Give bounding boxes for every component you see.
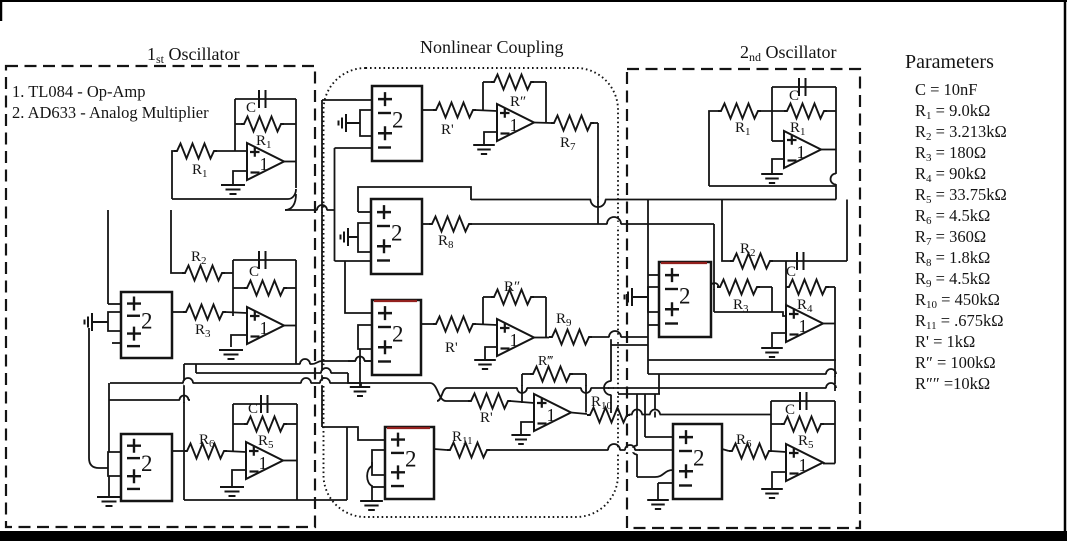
wire osc1-B output xyxy=(284,325,296,327)
ground osc2-B xyxy=(761,348,783,357)
wire M1 pin4 lead xyxy=(335,147,373,149)
wire R8 to osc2 xyxy=(471,223,714,225)
wire osc2-B mult out to R3 xyxy=(711,286,717,288)
wire M4 pin1 lead xyxy=(322,427,385,440)
svg-text:1: 1 xyxy=(510,115,519,135)
multiplier M1 osc2 (AD633) xyxy=(659,262,711,337)
wire M3 pin4 lead xyxy=(348,360,372,362)
svg-text:2: 2 xyxy=(141,451,153,476)
ground osc1-C mult xyxy=(97,497,121,506)
op-amp U1c osc1 xyxy=(246,442,283,479)
label R1 osc2 feedback xyxy=(790,120,806,138)
wire osc1-B minus input to ground xyxy=(231,335,247,347)
svg-text:2: 2 xyxy=(679,283,691,308)
wire osc2-A input loop xyxy=(709,111,718,186)
wire U1c minus to ground xyxy=(484,132,497,144)
parameters heading xyxy=(905,51,994,73)
ground osc1-B xyxy=(219,350,243,359)
wire U3c feedback R''' right lead xyxy=(572,373,586,375)
wire osc2-B node vertical xyxy=(771,287,773,312)
wire U2c output xyxy=(534,337,549,339)
wire osc1 left bus vertical x108 xyxy=(107,210,109,304)
wire hop x611 over bus388 xyxy=(604,381,614,395)
wire M2 pin1 lead xyxy=(358,211,371,213)
svg-text:1: 1 xyxy=(799,455,808,475)
wire osc1-B R3 to op-amp xyxy=(225,312,247,313)
wire osc2-C R6 to op-amp xyxy=(771,451,786,452)
wire coupling riser x347 xyxy=(346,427,348,500)
capacitor C osc1-B xyxy=(259,251,266,269)
wire coupling vertical x334 xyxy=(334,148,336,261)
resistor R2 osc1 xyxy=(182,266,225,281)
svg-text:2: 2 xyxy=(392,107,404,132)
border frame top line xyxy=(0,0,1067,2)
wire osc2-C pin4 lead xyxy=(658,482,673,484)
capacitor C osc2-B xyxy=(797,252,804,270)
2nd oscillator dashed box xyxy=(627,69,860,528)
svg-text:2: 2 xyxy=(392,321,404,346)
wire osc1-B R2 riser xyxy=(171,210,182,273)
svg-text:R': R' xyxy=(445,340,458,356)
wire osc1-C feedback R leads xyxy=(233,423,244,425)
wire osc1-C feedback right vertical xyxy=(296,404,298,460)
wire R9 to osc2 xyxy=(591,336,648,338)
wire hop bus210 over x322 xyxy=(317,205,327,213)
label C osc2-C xyxy=(785,402,795,418)
wire hop R10 over x655 xyxy=(650,410,660,418)
wire osc2-A right vertical xyxy=(835,87,837,200)
svg-text:C: C xyxy=(785,402,795,418)
wire osc2-A output xyxy=(821,149,836,151)
wire M3 pin1 riser xyxy=(345,261,372,313)
label R' coupling top xyxy=(441,122,454,138)
svg-text:C = 10nF: C = 10nF xyxy=(915,80,978,99)
wire osc1-A feedback node vertical xyxy=(234,99,236,151)
label C osc1-A xyxy=(246,100,256,116)
wire osc2-C pin3 curve xyxy=(637,470,673,477)
svg-text:2: 2 xyxy=(405,447,417,472)
wire osc1-B feedback node vertical xyxy=(232,260,234,316)
wire osc1-C minus input to ground xyxy=(232,470,246,486)
capacitor C osc1-A xyxy=(259,90,266,108)
wire hop y364 over border xyxy=(300,359,310,366)
label R7 coupling xyxy=(560,135,576,153)
wire hop bus374 over x835 xyxy=(826,369,836,377)
resistor R8 coupling xyxy=(429,217,472,232)
resistor R5 osc2 xyxy=(781,417,824,432)
wire bus y388 coupling to osc2 xyxy=(447,387,836,389)
multiplier M2 coupling (AD633) xyxy=(371,199,422,274)
wire osc2-C R5 left lead xyxy=(771,423,781,425)
svg-text:R″: R″ xyxy=(504,279,520,295)
wire osc1-C bracket stem xyxy=(108,476,110,497)
wire hop y361 over M3 stem xyxy=(356,357,365,365)
resistor R''' coupling xyxy=(530,367,573,382)
wire osc2-A R1 to node xyxy=(758,110,784,112)
wire osc1-C feedback node vertical xyxy=(232,404,234,451)
multiplier M2 osc1 (AD633) xyxy=(121,434,172,501)
wire U2c minus to ground xyxy=(485,347,497,359)
label C osc1-B xyxy=(249,264,259,280)
wire osc2-A minus to ground xyxy=(772,159,784,173)
wire osc2-C node vertical xyxy=(770,401,772,451)
op-amp U2b osc2 xyxy=(786,305,823,342)
resistor R' coupling mid xyxy=(433,317,476,332)
resistor R7 coupling xyxy=(551,116,594,131)
resistor R3 osc1 xyxy=(183,305,226,320)
wire coupling bus vertical x598 xyxy=(597,123,599,224)
svg-text:1: 1 xyxy=(259,453,268,473)
svg-text:C: C xyxy=(786,264,796,280)
svg-text:2: 2 xyxy=(141,308,153,333)
label R5 osc1 xyxy=(258,433,274,451)
label R5 osc2 xyxy=(798,433,814,451)
svg-text:R″″ =10kΩ: R″″ =10kΩ xyxy=(915,374,990,393)
wire osc2-B C riser xyxy=(846,200,848,262)
op-amp U1a osc1 xyxy=(247,143,284,180)
svg-text:Parameters: Parameters xyxy=(905,51,994,73)
label R6 osc1 xyxy=(199,432,215,450)
svg-text:R7 = 360Ω: R7 = 360Ω xyxy=(915,227,986,248)
wire osc1-B feedback R leads xyxy=(233,287,244,289)
label C osc2-A xyxy=(789,88,799,104)
side ground coupling-M1 xyxy=(339,114,361,132)
wire osc1-C bottom bus xyxy=(184,499,347,501)
wire hop R11 over dashed border xyxy=(625,445,635,452)
wire osc1-B feedback top through C xyxy=(233,259,296,261)
resistor R1 osc2 feedback xyxy=(784,104,827,119)
op-amp U1b osc1 xyxy=(247,307,284,344)
wire osc2-B left vertical x648 xyxy=(647,200,649,361)
wire osc2-C C top wire xyxy=(771,400,835,402)
wire U1c feedback right vertical xyxy=(545,82,547,123)
wire osc2-B R3 to node xyxy=(759,286,772,288)
wire osc1-B R2 to feedback node xyxy=(224,272,233,274)
wire osc2-B R2 to C wire xyxy=(772,260,847,262)
wire coupling vertical x611 xyxy=(610,337,612,413)
svg-text:C: C xyxy=(789,88,799,104)
resistor feedback osc1-B xyxy=(244,281,287,296)
wire R' to U3c plus input xyxy=(510,401,534,403)
bracket osc1-B pins xyxy=(108,312,121,331)
resistor R2 osc2 xyxy=(730,254,773,269)
wire osc2-C ground stem xyxy=(657,483,659,500)
bracket coupling-M3 pins xyxy=(358,325,372,349)
ground U2 coupling xyxy=(474,360,496,369)
wire osc1-A bottom loop xyxy=(172,189,296,199)
wire U2c feedback R'' right lead xyxy=(533,296,546,298)
op-amp U3 coupling xyxy=(534,394,571,431)
wire osc1-A feedback R leads xyxy=(235,123,241,125)
wire osc2-A C top wire xyxy=(772,86,836,88)
wire hop bus388 over x835 xyxy=(826,383,836,391)
label R'' coupling mid xyxy=(504,279,520,295)
parameter entry R″″ =10kΩ xyxy=(915,374,990,393)
op-amp U2c osc2 xyxy=(786,444,823,481)
note AD633 xyxy=(12,103,209,122)
wire osc2-B R2 riser xyxy=(722,200,730,262)
wire bus y383 S-drop to R' xyxy=(430,383,468,401)
bracket osc2-B pins xyxy=(648,287,659,312)
1st oscillator dashed box xyxy=(6,66,315,527)
wire U1c feedback R'' right lead xyxy=(533,81,546,83)
svg-text:1: 1 xyxy=(260,154,269,174)
wire hop bus388 over U3c right vertical xyxy=(581,385,591,393)
label C osc2-B xyxy=(786,264,796,280)
svg-text:1. TL084 - Op-Amp: 1. TL084 - Op-Amp xyxy=(12,82,146,101)
wire M4 out to R11 xyxy=(434,449,447,450)
wire hop bus200 dip xyxy=(591,197,606,208)
ground osc2-C mult xyxy=(647,500,669,509)
label R' coupling mid xyxy=(445,340,458,356)
svg-text:1: 1 xyxy=(260,318,269,338)
wire hop R9 wire over border xyxy=(609,331,621,339)
bracket coupling-M1 pins xyxy=(360,110,372,136)
bracket coupling-M2 pins xyxy=(358,223,371,252)
svg-text:R': R' xyxy=(480,410,493,426)
svg-text:1: 1 xyxy=(547,405,556,425)
wire osc1-B feedback right vertical xyxy=(295,260,297,325)
svg-text:2: 2 xyxy=(693,445,705,470)
capacitor C osc2-A xyxy=(799,78,806,96)
svg-text:C: C xyxy=(248,401,258,417)
wire M2 loop top xyxy=(358,187,471,212)
wire U3c feedback left vertical xyxy=(521,374,523,403)
svg-text:R4 = 90kΩ: R4 = 90kΩ xyxy=(915,164,986,185)
wire osc2-B minus to ground xyxy=(772,333,786,347)
wire osc1-A input left loop xyxy=(172,151,174,199)
resistor R1 osc1 feedback xyxy=(241,117,284,132)
wire hop y383 over osc1 border xyxy=(301,378,311,385)
title nonlinear coupling xyxy=(420,37,563,57)
svg-text:C: C xyxy=(246,100,256,116)
side ground osc1-B xyxy=(85,313,109,331)
ground coupling-M4 xyxy=(360,501,383,510)
parameter entry R11 = .675kΩ xyxy=(915,311,1004,332)
wire M3 R' to op-amp xyxy=(475,324,497,325)
wire hop y383 over coupling border xyxy=(320,378,330,385)
wire M4 bracket stem xyxy=(367,462,372,501)
wire osc2 bus y389 xyxy=(618,393,660,395)
wire osc2-C R5 right lead xyxy=(823,423,835,425)
wire osc2-A node vertical xyxy=(771,87,773,141)
parameter entry R3 = 180Ω xyxy=(915,143,986,164)
side ground osc2-B xyxy=(625,288,649,306)
wire U3c feedback R''' left lead xyxy=(522,373,530,375)
op-amp U2 coupling xyxy=(497,319,534,356)
wire osc1-B pin1 lead xyxy=(108,303,121,305)
wire osc2-A feedback R1 right lead xyxy=(824,110,836,112)
label R1 osc1 input xyxy=(192,162,208,180)
resistor R'' coupling mid xyxy=(491,290,534,305)
note TL084 xyxy=(12,82,146,101)
parameter entry C = 10nF xyxy=(915,80,978,99)
wire osc1 ground bus curve xyxy=(89,458,108,468)
svg-text:R″: R″ xyxy=(510,94,526,110)
parameter entry R7 = 360Ω xyxy=(915,227,986,248)
wire osc2-B feedback left vertical xyxy=(785,261,787,316)
wire osc1-A feedback top through C xyxy=(235,98,296,100)
wire coupling left bus x322 xyxy=(321,100,323,427)
label R1 osc1 feedback xyxy=(256,133,272,151)
svg-text:R‴: R‴ xyxy=(538,354,553,369)
wire osc1 ground bus vertical x89 xyxy=(88,328,90,458)
wire M2 out to R8 xyxy=(422,223,429,225)
ground U3 coupling xyxy=(511,435,530,444)
wire osc1-C output down xyxy=(296,460,298,500)
wire osc2-B node to plus xyxy=(714,312,786,316)
capacitor C osc2-C xyxy=(800,392,807,410)
wire U2c feedback R'' left lead xyxy=(483,296,491,298)
wire osc2 vertical x645 xyxy=(644,394,646,437)
svg-text:1: 1 xyxy=(799,316,808,336)
wire osc2-B bottom loop xyxy=(648,359,836,361)
resistor R10 coupling xyxy=(587,408,630,423)
wire U3c minus to ground xyxy=(521,422,534,434)
wire bus y373 osc1 to coupling xyxy=(196,372,348,374)
wire U2c feedback right vertical xyxy=(545,297,547,338)
wire hop y383 over x188 xyxy=(183,378,193,385)
svg-text:2: 2 xyxy=(391,220,403,245)
parameter entry R″ = 100kΩ xyxy=(915,353,996,372)
wire bus tie x196 xyxy=(195,364,197,373)
svg-text:2. AD633 - Analog Multiplier: 2. AD633 - Analog Multiplier xyxy=(12,103,209,122)
ground osc1-A xyxy=(221,185,245,194)
label R1 osc2 input xyxy=(735,120,751,138)
parameter entry R4 = 90kΩ xyxy=(915,164,986,185)
parameter entry R8 = 1.8kΩ xyxy=(915,248,990,269)
label R9 coupling xyxy=(556,311,572,329)
parameter entry R5 = 33.75kΩ xyxy=(915,185,1007,206)
wire U1c feedback R'' left lead xyxy=(483,81,491,83)
wire osc2 vertical x637 xyxy=(636,394,638,477)
wire node A bus to coupling xyxy=(285,209,335,211)
resistor R' coupling bottom xyxy=(468,394,511,409)
resistor R' coupling top xyxy=(433,103,476,118)
resistor R9 coupling xyxy=(549,330,592,345)
wire bus y383 osc1 to coupling xyxy=(110,382,430,384)
resistor R6 osc2 xyxy=(729,444,772,459)
multiplier M3 coupling (AD633) xyxy=(372,300,421,375)
wire M3 out to R' xyxy=(421,323,433,325)
wire osc2-A plus input xyxy=(772,140,784,142)
wire osc1-B feedback R right lead xyxy=(286,287,296,289)
multiplier M1 coupling (AD633) xyxy=(372,86,422,161)
wire osc1-C R6 to op-amp xyxy=(226,451,246,452)
svg-text:1: 1 xyxy=(797,142,806,162)
border frame right line xyxy=(1064,0,1067,541)
wire osc1-C feedback top through C xyxy=(233,403,297,405)
wire U3c feedback right vertical xyxy=(585,374,587,413)
wire hop R11 over border xyxy=(608,444,620,452)
nonlinear coupling dotted box xyxy=(324,68,619,517)
wire bus vertical x109 xyxy=(108,383,110,452)
wire hop osc2-A output jog xyxy=(831,174,839,185)
wire osc2-B pin4 lead xyxy=(648,324,659,326)
bracket coupling-M4 pins xyxy=(372,450,385,475)
svg-text:R' = 1kΩ: R' = 1kΩ xyxy=(915,332,975,351)
multiplier M1 osc1 (AD633) xyxy=(121,292,172,358)
bracket osc1-C pins xyxy=(108,452,121,476)
label R' coupling bottom xyxy=(480,410,493,426)
wire hop osc2-B R3 xyxy=(711,283,719,290)
wire M4 pin4 lead xyxy=(372,486,385,488)
parameter entry R1 = 9.0kΩ xyxy=(915,101,990,122)
wire osc1-B mult output to R3 xyxy=(172,311,183,313)
wire M1 R' to op-amp xyxy=(475,110,497,111)
wire osc2-B pin1 lead xyxy=(648,274,659,276)
wire R10 to osc2 node xyxy=(629,414,771,416)
wire hop bus388 over U3c left vertical xyxy=(517,385,527,393)
resistor R4 osc2 xyxy=(786,280,829,295)
wire osc1-B pin4 stub xyxy=(112,342,121,344)
parameter entry R2 = 3.213kΩ xyxy=(915,122,1007,143)
svg-text:R3 = 180Ω: R3 = 180Ω xyxy=(915,143,986,164)
wire hop R8 wire over border xyxy=(607,217,621,226)
svg-text:R': R' xyxy=(441,122,454,138)
wire osc2-C right vertical xyxy=(834,401,836,464)
wire bus y364 osc1 to coupling xyxy=(184,363,301,365)
wire hop R10 over x637 xyxy=(632,410,642,418)
label R''' coupling xyxy=(538,354,553,369)
label R10 coupling xyxy=(591,394,613,412)
ground osc2-C opamp xyxy=(761,489,783,498)
label R'' coupling top xyxy=(510,94,526,110)
wire U2c feedback node vertical xyxy=(482,297,484,325)
wire M1 pin1 lead xyxy=(322,99,372,101)
wire M3 ground stem xyxy=(359,349,361,387)
ground osc1-C opamp xyxy=(220,487,244,496)
wire M2 pin4 lead xyxy=(335,260,372,262)
ground coupling-M3 xyxy=(350,387,370,396)
resistor R11 coupling xyxy=(447,443,490,458)
wire bus y388 rise from R' line xyxy=(437,388,447,401)
bottom black bar xyxy=(0,531,1067,541)
wire osc2 vertical x648 link xyxy=(647,360,649,374)
wire osc2 vertical x655 xyxy=(654,394,656,409)
side ground coupling-M2 xyxy=(341,228,359,246)
wire osc2-C minus to ground xyxy=(772,472,786,488)
parameter entry R' = 1kΩ xyxy=(915,332,975,351)
op-amp U1 coupling xyxy=(497,104,534,141)
wire osc2-A bottom loop xyxy=(709,185,836,187)
wire bus y400 left xyxy=(109,399,190,401)
label R3 osc1 xyxy=(195,322,211,340)
wire bus y373 drop xyxy=(348,373,361,387)
op-amp U2a osc2 xyxy=(784,131,821,168)
wire osc1-C mult output to R6 xyxy=(172,450,184,452)
ground osc2-A xyxy=(761,174,783,183)
label R2 osc2 xyxy=(740,241,756,259)
resistor R6 osc1 xyxy=(184,444,227,459)
capacitor C osc1-C xyxy=(261,395,268,413)
wire osc2-B R4 right lead xyxy=(828,286,835,288)
svg-text:R″ = 100kΩ: R″ = 100kΩ xyxy=(915,353,996,372)
wire osc1-B output down xyxy=(295,325,297,364)
wire osc1-A feedback right vertical xyxy=(295,99,297,188)
wire osc2-B right vertical xyxy=(834,287,836,384)
svg-text:1: 1 xyxy=(510,330,519,350)
label R2 osc1 xyxy=(191,249,207,267)
title 1st oscillator xyxy=(147,44,240,66)
resistor R1 osc2 input xyxy=(718,104,761,119)
wire M1 out to R' xyxy=(422,109,433,111)
title 2nd oscillator xyxy=(740,42,836,64)
label C osc1-C xyxy=(248,401,258,417)
label R3 osc2 xyxy=(733,297,749,315)
wire osc2 bus y374 xyxy=(648,373,836,375)
wire osc2-C mult out to R6 xyxy=(722,449,729,451)
